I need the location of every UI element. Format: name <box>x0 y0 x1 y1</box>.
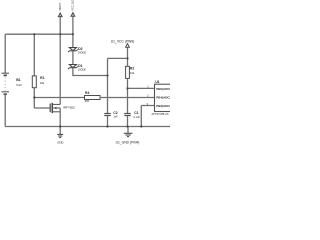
junction node R1 top rail <box>33 33 35 35</box>
diode D1 <box>68 65 78 70</box>
junction node VCC net R2 top <box>126 57 128 59</box>
svg-text:PB3(ADC3: PB3(ADC3 <box>156 104 170 108</box>
wire diode branch upper <box>72 34 74 47</box>
svg-text:D2: D2 <box>78 47 83 51</box>
wire pin3 <box>141 106 154 127</box>
junction node VBATT arrow rail <box>59 33 61 35</box>
svg-text:R4: R4 <box>85 91 89 95</box>
junction node C1 gnd at rail <box>126 125 128 127</box>
junction node gate net R1 <box>33 96 35 98</box>
diode D2 <box>68 48 78 53</box>
junction node D1 wire to C2 branch <box>106 74 108 76</box>
svg-text:GND: GND <box>57 140 63 144</box>
transistor Q1 IRF7822 <box>34 103 60 127</box>
wire left rail upper <box>4 34 6 73</box>
svg-text:10k: 10k <box>130 71 135 75</box>
svg-text:PB0(ADC0: PB0(ADC0 <box>156 87 170 91</box>
power flag VBATT arrow <box>58 13 62 34</box>
svg-text:300: 300 <box>85 99 90 103</box>
svg-text:0.1nF: 0.1nF <box>134 116 141 119</box>
junction node source at rail <box>59 125 61 127</box>
svg-text:C2: C2 <box>113 111 117 115</box>
wire R4 to pin2 <box>100 97 155 99</box>
wire top rail <box>5 33 73 35</box>
svg-text:19k: 19k <box>40 81 45 85</box>
svg-text:B1: B1 <box>16 78 20 82</box>
svg-text:DIODE: DIODE <box>78 52 86 55</box>
capacitor C2 <box>104 114 110 127</box>
wire node to VCC net <box>108 57 128 59</box>
wire R2 bottom to C1 <box>127 88 129 113</box>
ground flag U1_GND <box>124 127 133 137</box>
junction node C2 at rail <box>106 125 108 127</box>
svg-text:9.9V: 9.9V <box>16 83 22 87</box>
wire D1 to node <box>73 68 108 76</box>
svg-text:U1_VCC (PIN8): U1_VCC (PIN8) <box>111 39 134 43</box>
svg-text:R2: R2 <box>130 67 134 71</box>
svg-text:1nF: 1nF <box>113 116 118 119</box>
svg-text:C1: C1 <box>134 111 138 115</box>
wire gate net horizontal <box>34 97 84 99</box>
power flag U1_VCC arrow <box>126 44 130 59</box>
svg-text:R1: R1 <box>40 76 44 80</box>
junction node pin3 at rail <box>140 125 142 127</box>
resistor R2 <box>126 58 130 88</box>
svg-text:VCC_DIO: VCC_DIO <box>71 0 75 11</box>
wire bottom rail <box>5 126 170 128</box>
svg-text:U1: U1 <box>155 80 159 84</box>
wire between diodes <box>72 51 74 65</box>
resistor R1 <box>32 34 36 108</box>
wire cap C2 branch vertical <box>107 58 109 113</box>
svg-text:DIODE: DIODE <box>78 68 86 71</box>
svg-text:ATTINY85-20: ATTINY85-20 <box>152 112 169 116</box>
junction node diode branch rail <box>72 33 74 35</box>
junction node R2 bottom <box>126 87 128 89</box>
svg-text:IRF7822: IRF7822 <box>63 105 75 109</box>
ground symbol GND <box>57 127 63 138</box>
wire left rail lower <box>4 94 6 126</box>
capacitor C1 <box>124 114 130 127</box>
chip U1 box <box>155 84 176 111</box>
svg-text:U1_GND (PIN4): U1_GND (PIN4) <box>116 140 140 144</box>
svg-text:VBATT: VBATT <box>58 2 62 11</box>
wire R2 bottom to pin1 <box>128 87 155 89</box>
svg-text:D1: D1 <box>78 64 83 68</box>
svg-text:PB4(ADC2: PB4(ADC2 <box>156 96 170 100</box>
power flag VCC_DIO arrow <box>71 13 75 35</box>
battery B1 <box>1 73 9 94</box>
wire drain column <box>59 34 61 104</box>
resistor R4 <box>85 96 101 100</box>
